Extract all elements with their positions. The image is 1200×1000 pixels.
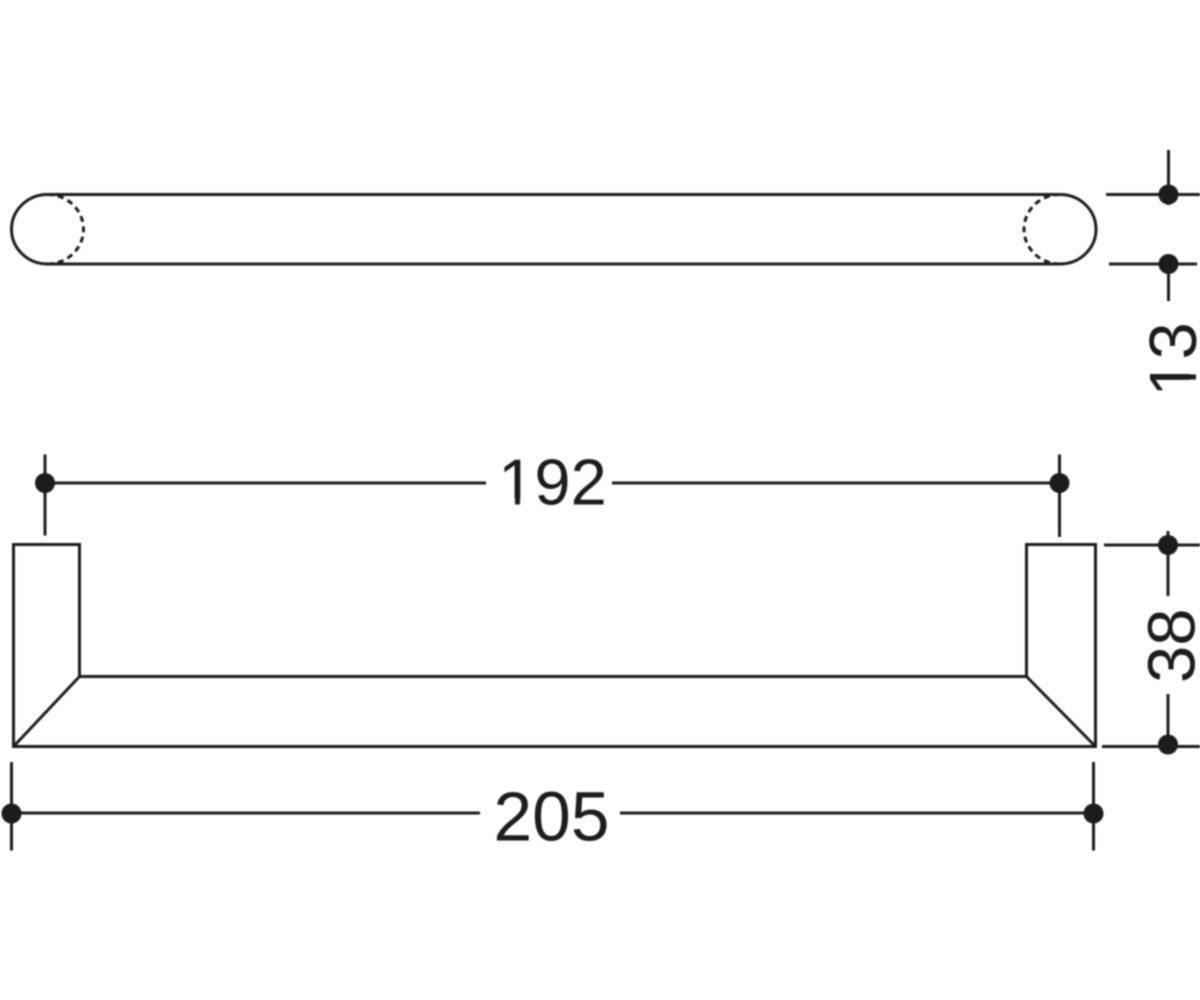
dim 205: dimension line right segment (620, 812, 1094, 815)
top view: bar bottom tangent line (48, 263, 1061, 266)
top view: right end solid cap arc (1060, 195, 1096, 265)
dim 205: right dot (1084, 804, 1104, 824)
dim 205: left dot (2, 804, 22, 824)
top view: left end solid cap arc (11, 195, 47, 265)
dim 38: vertical line upper segment (1167, 531, 1170, 596)
svg-text:192: 192 (498, 446, 606, 519)
top view: left end hidden circle (dashed) (48, 195, 84, 265)
dim 38: vertical line lower segment (1167, 694, 1170, 746)
svg-text:205: 205 (494, 778, 610, 856)
top view: bar top tangent line (48, 193, 1061, 196)
dim 205: left extension line (10, 762, 13, 851)
dim 13: top leader line (1106, 193, 1200, 196)
dim 13: bottom leader line (1109, 263, 1197, 266)
label 192: foot-serif masks on digit 1 (503, 499, 515, 505)
svg-text:13: 13 (1136, 322, 1200, 397)
dim 38: top leader line (1104, 544, 1200, 547)
dim 192: left extension line (44, 455, 47, 536)
label 13: foot-serif masks on digit 1 (rotated frame) (1191, 362, 1197, 392)
dim 192: right extension line (1058, 455, 1061, 538)
dim 205: dimension line left segment (12, 812, 481, 815)
dim 192: right dot (1050, 473, 1070, 493)
front view: outline (14, 545, 1096, 747)
dim 13: bottom dot (1159, 254, 1179, 274)
dim 38: bottom leader line (1102, 745, 1200, 748)
dim 192: dimension line right segment (612, 482, 1060, 485)
dim 38: bottom dot (1158, 735, 1178, 755)
front view: right mitre diagonal (1027, 677, 1096, 747)
svg-text:38: 38 (1135, 608, 1200, 683)
dim 192: dimension line left segment (45, 482, 486, 485)
dim 38: top dot (1158, 535, 1178, 555)
dim 13: vertical line below bottom dot (1167, 264, 1170, 301)
top view: right end hidden circle (dashed) (1024, 195, 1060, 265)
dim 205: right extension line (1092, 762, 1095, 851)
dim 13: top dot (1159, 185, 1179, 205)
dim 192: left dot (35, 473, 55, 493)
front view: left mitre diagonal (14, 677, 80, 747)
dim 13: vertical line above top dot (1167, 150, 1170, 205)
